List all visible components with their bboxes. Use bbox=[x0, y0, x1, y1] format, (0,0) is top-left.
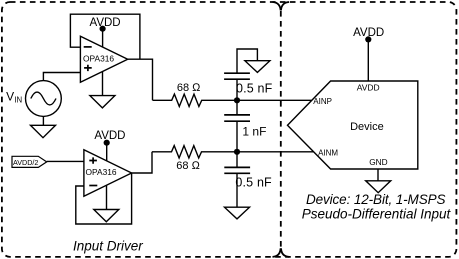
capacitor C3 plates bbox=[224, 167, 250, 173]
svg-text:AINM: AINM bbox=[318, 149, 338, 158]
ground under VIN bbox=[31, 125, 56, 137]
wire feedback loop op-amp U1 bbox=[70, 14, 139, 59]
divider top-right corner arc bbox=[281, 2, 289, 11]
capacitor C1 plates bbox=[224, 73, 250, 79]
svg-text:AVDD: AVDD bbox=[357, 83, 380, 93]
ground under U1 bbox=[90, 96, 115, 108]
junction dot node AINP bbox=[234, 97, 240, 103]
wire U1 output down to AINP line bbox=[128, 59, 153, 100]
ground under U2 bbox=[94, 210, 119, 222]
wire node AINP to device bbox=[237, 99, 311, 101]
source VIN circle bbox=[26, 81, 62, 117]
power dot U1 bbox=[100, 26, 106, 32]
svg-text:0.5 nF: 0.5 nF bbox=[236, 82, 273, 96]
junction dot node AINM bbox=[234, 149, 240, 155]
capacitor C2 plates bbox=[224, 115, 250, 121]
svg-text:68 Ω: 68 Ω bbox=[177, 82, 201, 94]
svg-text:AVDD: AVDD bbox=[94, 130, 125, 142]
wire AVDD supply U2 bbox=[106, 143, 108, 161]
minus sign U1 bbox=[84, 46, 92, 48]
op-amp U2 bbox=[84, 150, 132, 197]
wire node AINM to capacitor C3 bbox=[236, 152, 238, 168]
svg-text:1 nF: 1 nF bbox=[242, 124, 266, 138]
svg-text:OPA316: OPA316 bbox=[86, 167, 117, 177]
wire U2 output up to AINM line bbox=[132, 152, 152, 173]
svg-text:Device: Device bbox=[350, 121, 384, 133]
divider top-left corner arc bbox=[273, 2, 281, 11]
svg-text:GND: GND bbox=[369, 157, 387, 167]
ground under device bbox=[366, 181, 391, 193]
plus sign U2 bbox=[89, 157, 97, 163]
svg-text:0.5 nF: 0.5 nF bbox=[235, 176, 272, 190]
svg-text:Pseudo-Differential Input: Pseudo-Differential Input bbox=[302, 207, 452, 222]
svg-text:AVDD/2: AVDD/2 bbox=[13, 158, 38, 167]
ground above C1 bbox=[245, 61, 270, 73]
op-amp U1 bbox=[80, 36, 127, 82]
svg-text:IN: IN bbox=[14, 95, 22, 104]
wire node AINM to device bbox=[237, 151, 314, 153]
svg-text:V: V bbox=[6, 90, 14, 104]
power dot U2 bbox=[104, 140, 110, 146]
divider bottom-left corner arc bbox=[273, 248, 281, 257]
wire node AINP to capacitor C2 bbox=[236, 100, 238, 115]
svg-text:Device: 12-Bit, 1-MSPS: Device: 12-Bit, 1-MSPS bbox=[306, 192, 446, 207]
device body bbox=[288, 81, 418, 169]
dashed divider between Input Driver box and Device box bbox=[280, 11, 282, 248]
sine wave in VIN bbox=[31, 92, 56, 105]
resistor R2 bbox=[152, 146, 237, 158]
wire GND pin bbox=[377, 169, 379, 181]
wire U2 to ground bbox=[106, 185, 108, 209]
ground under C3 bbox=[225, 207, 250, 219]
svg-text:Input Driver: Input Driver bbox=[73, 238, 143, 253]
divider bottom-right corner arc bbox=[281, 248, 289, 257]
wire feedback loop op-amp U2 bbox=[76, 173, 132, 224]
svg-text:OPA316: OPA316 bbox=[83, 54, 114, 64]
wire AVDD supply U1 bbox=[102, 29, 104, 47]
resistor R1 bbox=[153, 94, 238, 106]
wire VIN to U1 + input bbox=[43, 73, 80, 82]
wire C1 to node AINP bbox=[236, 79, 238, 100]
wire U1 to ground bbox=[102, 72, 104, 96]
wire capacitor C1 to ground arm bbox=[237, 49, 257, 73]
plus sign U1 bbox=[84, 65, 92, 71]
minus sign U2 bbox=[89, 185, 97, 187]
wire AVDD/2 to U2 + input bbox=[47, 160, 84, 162]
wire C2 to node AINM bbox=[236, 121, 238, 152]
wire C3 to ground bbox=[236, 173, 238, 207]
wire AVDD to device bbox=[367, 39, 369, 81]
svg-text:68 Ω: 68 Ω bbox=[176, 160, 200, 172]
power dot device AVDD bbox=[365, 36, 371, 42]
wire VIN to ground bbox=[42, 116, 44, 125]
net flag AVDD/2 bbox=[12, 156, 47, 167]
svg-text:AINP: AINP bbox=[313, 97, 332, 106]
